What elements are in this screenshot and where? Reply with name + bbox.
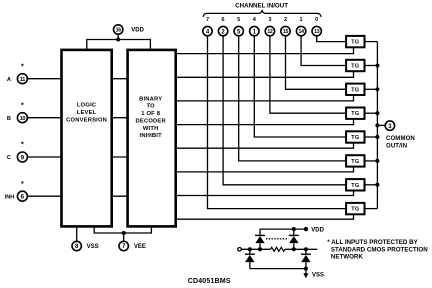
svg-text:*: * — [21, 63, 24, 70]
svg-text:7: 7 — [206, 17, 209, 23]
junction TG6 output — [375, 159, 379, 163]
pin 5 (channel 5) — [234, 26, 243, 35]
svg-text:6: 6 — [222, 17, 225, 23]
diode D3 lower-left — [245, 249, 255, 268]
wire decoder to TG8 control — [176, 214, 354, 219]
svg-text:*: * — [21, 181, 24, 188]
svg-text:VSS: VSS — [312, 273, 324, 279]
svg-text:9: 9 — [21, 154, 25, 161]
svg-text:INH: INH — [5, 194, 15, 200]
pin 14 (channel 1) — [296, 26, 305, 35]
diode D4 lower-right — [301, 249, 311, 268]
VEE rail under blocks — [94, 226, 151, 233]
svg-text:4: 4 — [206, 29, 210, 35]
svg-text:5: 5 — [237, 17, 240, 23]
svg-text:* ALL INPUTS PROTECTED BY: * ALL INPUTS PROTECTED BY — [327, 239, 418, 246]
svg-text:*: * — [21, 142, 24, 149]
svg-text:10: 10 — [20, 116, 26, 122]
TG7 — [346, 179, 364, 190]
svg-text:13: 13 — [314, 29, 320, 35]
junction lower-right diode — [304, 247, 308, 251]
junction common branch — [375, 123, 379, 127]
junction D2 to VDD rail — [292, 227, 296, 231]
dotted distributed diode — [266, 238, 289, 240]
pin 9 input C — [7, 152, 28, 162]
svg-text:14: 14 — [299, 29, 305, 35]
svg-text:A: A — [7, 77, 11, 83]
wire to VSS arrow — [305, 269, 307, 274]
wire pin 4 to TG8 input — [208, 36, 346, 209]
resistor R (protection) — [271, 247, 285, 251]
svg-text:TG: TG — [351, 64, 359, 70]
TG1 — [346, 36, 364, 47]
svg-text:3: 3 — [268, 17, 271, 23]
svg-text:WITH: WITH — [143, 126, 159, 132]
svg-text:LOGIC: LOGIC — [77, 102, 97, 108]
TG5 — [346, 131, 364, 142]
svg-text:16: 16 — [116, 27, 122, 33]
wire C to U1 — [28, 156, 63, 158]
junction upper-right diode — [292, 247, 296, 251]
VDD rail over blocks — [87, 40, 151, 49]
diode D2 upper-right — [289, 229, 299, 249]
pin 12 (channel 3) — [265, 26, 274, 35]
wire TG2 output to bus — [365, 65, 378, 67]
junction D4 to VSS rail — [304, 267, 308, 271]
pin 1 (channel 4) — [250, 26, 259, 35]
pin 11 input A — [7, 74, 28, 84]
svg-text:8: 8 — [75, 244, 79, 250]
svg-text:4: 4 — [253, 17, 257, 23]
svg-text:CD4051BMS: CD4051BMS — [188, 278, 231, 285]
TG2 — [346, 60, 364, 71]
svg-text:1: 1 — [253, 29, 257, 35]
svg-text:TG: TG — [351, 87, 359, 93]
VSS rail of protection network — [250, 268, 306, 270]
svg-text:LEVEL: LEVEL — [77, 110, 97, 116]
wire decoder to TG4 control — [176, 119, 354, 125]
wire decoder to TG1 control — [176, 47, 354, 53]
svg-text:VEE: VEE — [134, 244, 146, 250]
junction upper-left diode — [258, 247, 262, 251]
TG6 — [346, 155, 364, 166]
wire pin 13 to TG1 input — [317, 36, 346, 42]
wire pin 14 to TG2 input — [301, 36, 346, 65]
svg-text:6: 6 — [21, 194, 25, 201]
wire pin 16 to VDD rail — [117, 35, 119, 40]
svg-text:15: 15 — [283, 29, 289, 35]
wire A to U1 — [28, 78, 63, 80]
pin 6 input INH — [5, 191, 28, 201]
svg-text:DECODER: DECODER — [136, 118, 167, 124]
svg-text:VDD: VDD — [311, 227, 324, 233]
input terminal of protection network — [238, 248, 242, 252]
wire B to U1 — [28, 117, 63, 119]
pin 15 (channel 2) — [281, 26, 290, 35]
svg-text:TO: TO — [147, 104, 156, 110]
pin 13 (channel 0) — [312, 26, 321, 35]
wire TG6 output to bus — [365, 160, 378, 162]
junction VDD — [116, 37, 120, 41]
wire TG8 output to bus — [365, 208, 378, 210]
wire decoder to TG5 control — [176, 143, 354, 149]
svg-text:1 OF 8: 1 OF 8 — [141, 111, 160, 117]
wire TG5 output to bus — [365, 136, 378, 138]
svg-text:2: 2 — [221, 29, 225, 35]
junction lower-left diode — [248, 247, 252, 251]
junction TG4 output — [375, 111, 379, 115]
wire B U1 to U2 — [111, 117, 128, 119]
wire input line right — [285, 248, 317, 250]
svg-text:5: 5 — [237, 29, 241, 35]
svg-text:3: 3 — [388, 124, 392, 130]
wire VEE rail to pin 7 — [123, 233, 125, 241]
wire decoder to TG3 control — [176, 95, 354, 101]
svg-text:INHIBIT: INHIBIT — [140, 133, 163, 139]
wire INH U1 to U2 — [111, 195, 128, 197]
VSS arrow — [303, 273, 308, 278]
common bus — [376, 42, 378, 209]
svg-text:C: C — [7, 155, 11, 161]
TG8 — [346, 203, 364, 214]
wire A U1 to U2 — [111, 78, 128, 80]
svg-text:CHANNEL IN/OUT: CHANNEL IN/OUT — [235, 2, 288, 9]
junction TG2 output — [375, 63, 379, 67]
wire C U1 to U2 — [111, 156, 128, 158]
svg-text:0: 0 — [315, 17, 318, 23]
svg-text:11: 11 — [20, 77, 26, 83]
wire pin 1 to TG5 input — [254, 36, 345, 137]
wire pin 15 to TG3 input — [286, 36, 346, 89]
svg-text:7: 7 — [122, 244, 126, 250]
svg-text:CONVERSION: CONVERSION — [66, 117, 107, 123]
block U2 BINARY TO 1 OF 8 DECODER WITH INHIBIT — [128, 50, 176, 227]
wire INH to U1 — [28, 195, 63, 197]
diode D1 upper-left — [255, 229, 265, 249]
wire TG3 output to bus — [365, 88, 378, 90]
svg-text:TG: TG — [351, 40, 359, 46]
wire TG4 output to bus — [365, 112, 378, 114]
wire pin 12 to TG4 input — [270, 36, 346, 113]
TG3 — [346, 84, 364, 95]
note: all inputs protected — [327, 239, 428, 260]
svg-text:TG: TG — [351, 159, 359, 165]
svg-text:2: 2 — [284, 17, 287, 23]
label COMMON OUT/IN — [386, 136, 415, 150]
wire pin 2 to TG7 input — [223, 36, 346, 185]
svg-text:VSS: VSS — [87, 244, 99, 250]
svg-text:12: 12 — [267, 29, 273, 35]
svg-text:TG: TG — [351, 207, 359, 213]
block U1 LOGIC LEVEL CONVERSION — [62, 50, 112, 227]
TG4 — [346, 108, 364, 119]
wire pin 5 to TG6 input — [239, 36, 346, 161]
junction TG5 output — [375, 135, 379, 139]
pin 10 input B — [7, 113, 28, 123]
svg-text:BINARY: BINARY — [139, 96, 162, 102]
pin 8 VSS — [72, 241, 99, 250]
pin 7 VEE — [119, 241, 146, 250]
svg-text:STANDARD CMOS PROTECTION: STANDARD CMOS PROTECTION — [331, 246, 428, 253]
wire U1 to pin 8 VSS — [76, 226, 78, 241]
pin 16 VDD — [114, 25, 145, 34]
pin 3 COMMON OUT/IN — [385, 121, 394, 130]
svg-text:COMMON: COMMON — [386, 136, 415, 142]
svg-text:TG: TG — [351, 111, 359, 117]
junction TG7 output — [375, 183, 379, 187]
svg-text:*: * — [21, 102, 24, 109]
svg-text:B: B — [7, 116, 11, 122]
svg-text:TG: TG — [351, 135, 359, 141]
wire bus to pin 3 — [377, 124, 385, 126]
wire decoder to TG2 control — [176, 71, 354, 77]
pin 4 (channel 7) — [203, 26, 212, 35]
wire TG1 output to bus — [365, 41, 378, 43]
svg-text:TG: TG — [351, 183, 359, 189]
wire decoder to TG7 control — [176, 191, 354, 196]
svg-text:1: 1 — [300, 17, 303, 23]
svg-text:VDD: VDD — [131, 28, 144, 34]
wire decoder to TG6 control — [176, 167, 354, 172]
pin 2 (channel 6) — [218, 26, 227, 35]
VDD rail of protection network — [260, 228, 306, 230]
svg-text:OUT/IN: OUT/IN — [386, 144, 407, 150]
junction VEE — [122, 231, 126, 235]
junction TG3 output — [375, 87, 379, 91]
wire TG7 output to bus — [365, 184, 378, 186]
svg-text:NETWORK: NETWORK — [331, 254, 363, 261]
wire input line left — [241, 248, 270, 250]
VDD terminal dot — [304, 227, 308, 231]
brace over channel pins — [203, 11, 321, 17]
